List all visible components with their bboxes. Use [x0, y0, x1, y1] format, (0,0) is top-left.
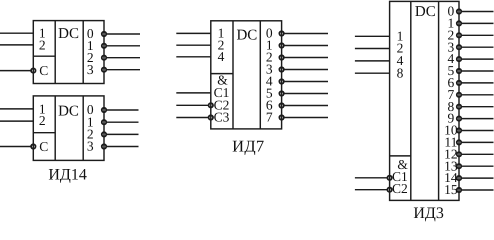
- DD4 input wire 8: [355, 72, 390, 74]
- DD4 output 13 bubble: [457, 164, 461, 168]
- svg-text:C2: C2: [392, 181, 408, 196]
- DD2 output 0 bubble: [102, 108, 106, 112]
- DD3 output 5 bubble: [279, 91, 283, 95]
- DD1 column divider right: [82, 21, 84, 84]
- DD2 C-section divider: [33, 132, 55, 134]
- DD4 output 10 bubble: [457, 128, 461, 132]
- DD4 enable-section divider: [390, 155, 411, 157]
- DD4 output 7 wire: [462, 94, 494, 96]
- DD2 output 2 wire: [107, 133, 139, 135]
- DD2 input wire 2: [0, 120, 33, 122]
- svg-text:15: 15: [444, 182, 458, 197]
- DD4 output 5 wire: [462, 70, 494, 72]
- DD3 output 7 bubble: [279, 115, 283, 119]
- DD2 column divider right: [82, 96, 84, 160]
- svg-text:C: C: [39, 139, 48, 154]
- DD1 output 0 wire: [107, 33, 140, 35]
- svg-text:DC: DC: [58, 104, 79, 120]
- DD4 output 8 bubble: [457, 105, 461, 109]
- DD1 output 3 bubble: [102, 68, 106, 72]
- DD1 input wire 1: [0, 32, 33, 34]
- DD4 output 11 wire: [462, 141, 494, 143]
- DD4 output 6 bubble: [457, 81, 461, 85]
- svg-text:C: C: [39, 63, 48, 78]
- svg-text:DC: DC: [415, 4, 436, 20]
- DD4 output 3 bubble: [457, 45, 461, 49]
- DD4 output 5 bubble: [457, 69, 461, 73]
- svg-text:ИД3: ИД3: [413, 205, 443, 222]
- DD1 output 2 wire: [107, 57, 140, 59]
- decoder DD2 (K155ID14 lower section) body: [33, 96, 104, 160]
- DD1 input wire 2: [0, 44, 33, 46]
- DD4 output 1 bubble: [457, 21, 461, 25]
- DD3 input wire 1: [176, 32, 211, 34]
- DD3 input wire 2: [176, 44, 211, 46]
- svg-text:C3: C3: [214, 110, 230, 125]
- DD3 output 5 wire: [284, 93, 328, 95]
- DD3 output 0 bubble: [279, 31, 283, 35]
- DD3 enable-section divider: [211, 73, 233, 75]
- DD4 output 12 bubble: [457, 152, 461, 156]
- DD1 output 1 bubble: [102, 44, 106, 48]
- DD2 output 1 bubble: [102, 120, 106, 124]
- DD4 inversion bubble C2: [387, 188, 391, 192]
- svg-text:ИД14: ИД14: [48, 166, 86, 183]
- DD4 output 0 wire: [462, 11, 494, 13]
- svg-text:2: 2: [39, 113, 46, 128]
- DD4 output 9 wire: [462, 118, 494, 120]
- DD4 output 9 bubble: [457, 116, 461, 120]
- DD2 output 0 wire: [107, 109, 139, 111]
- DD4 output 15 bubble: [457, 188, 461, 192]
- DD3 input wire 4: [176, 56, 211, 58]
- DD4 output 11 bubble: [457, 140, 461, 144]
- svg-text:2: 2: [39, 37, 46, 52]
- DD1 output 0 bubble: [102, 32, 106, 36]
- decoder DD3 (K155ID7) body: [211, 21, 282, 129]
- DD3 output 4 wire: [284, 81, 328, 83]
- DD2 output 3 bubble: [102, 144, 106, 148]
- DD2 input wire C (active low): [0, 146, 31, 148]
- DD4 output 7 bubble: [457, 93, 461, 97]
- DD3 input wire C1: [176, 92, 211, 94]
- svg-text:3: 3: [87, 139, 94, 154]
- svg-text:8: 8: [397, 65, 404, 80]
- DD3 output 2 bubble: [279, 55, 283, 59]
- svg-text:7: 7: [266, 110, 273, 125]
- DD4 output 2 wire: [462, 34, 494, 36]
- DD4 output 12 wire: [462, 153, 494, 155]
- DD4 input wire C2 (active low): [355, 189, 387, 191]
- DD4 output 10 wire: [462, 130, 494, 132]
- DD3 output 4 bubble: [279, 79, 283, 83]
- DD3 output 7 wire: [284, 117, 328, 119]
- svg-text:4: 4: [218, 49, 225, 64]
- DD2 output 2 bubble: [102, 132, 106, 136]
- DD4 output 8 wire: [462, 106, 494, 108]
- DD2 output 1 wire: [107, 121, 139, 123]
- DD2 column divider left: [54, 96, 56, 160]
- svg-text:DC: DC: [58, 26, 79, 42]
- DD1 output 2 bubble: [102, 56, 106, 60]
- DD4 input wire 1: [355, 35, 390, 37]
- DD3 input wire C3 (active low): [176, 117, 208, 119]
- DD1 column divider left: [54, 21, 56, 84]
- DD3 input wire C2 (active low): [176, 104, 208, 106]
- svg-text:ИД7: ИД7: [232, 137, 264, 156]
- DD2 input wire 1: [0, 108, 33, 110]
- DD4 input wire 2: [355, 48, 390, 50]
- DD1 output 1 wire: [107, 45, 140, 47]
- DD4 input wire C1 (active low): [355, 177, 387, 179]
- DD3 output 3 bubble: [279, 67, 283, 71]
- svg-text:3: 3: [87, 62, 94, 77]
- DD3 inversion bubble C3: [209, 115, 213, 119]
- DD4 output 14 bubble: [457, 176, 461, 180]
- DD4 output 2 bubble: [457, 33, 461, 37]
- DD1 inversion bubble C: [31, 68, 35, 72]
- DD4 output 4 bubble: [457, 57, 461, 61]
- DD3 column divider right: [259, 21, 261, 129]
- DD3 output 6 bubble: [279, 103, 283, 107]
- svg-text:DC: DC: [236, 27, 257, 43]
- DD4 column divider left: [410, 1, 412, 200]
- DD4 output 0 bubble: [457, 9, 461, 13]
- DD4 output 3 wire: [462, 46, 494, 48]
- DD3 output 2 wire: [284, 57, 328, 59]
- DD4 output 13 wire: [462, 165, 494, 167]
- DD4 column divider right: [438, 1, 440, 200]
- DD1 output 3 wire: [107, 69, 140, 71]
- DD4 input wire 4: [355, 60, 390, 62]
- decoder DD1 (K155ID14 upper section) body: [33, 21, 104, 84]
- decoder DD4 (K155ID3) body: [390, 1, 459, 200]
- DD3 output 3 wire: [284, 69, 328, 71]
- DD4 output 14 wire: [462, 177, 494, 179]
- DD4 output 6 wire: [462, 82, 494, 84]
- DD4 output 1 wire: [462, 22, 494, 24]
- DD1 C-section divider: [33, 55, 55, 57]
- DD4 output 4 wire: [462, 58, 494, 60]
- DD3 column divider left: [232, 21, 234, 129]
- DD3 output 0 wire: [284, 33, 328, 35]
- DD3 output 1 wire: [284, 45, 328, 47]
- DD4 inversion bubble C1: [387, 176, 391, 180]
- DD2 output 3 wire: [107, 146, 139, 148]
- DD3 output 1 bubble: [279, 43, 283, 47]
- DD3 inversion bubble C2: [209, 103, 213, 107]
- DD3 output 6 wire: [284, 105, 328, 107]
- DD1 input wire C (active low): [0, 70, 31, 72]
- DD2 inversion bubble C: [31, 144, 35, 148]
- DD4 output 15 wire: [462, 189, 494, 191]
